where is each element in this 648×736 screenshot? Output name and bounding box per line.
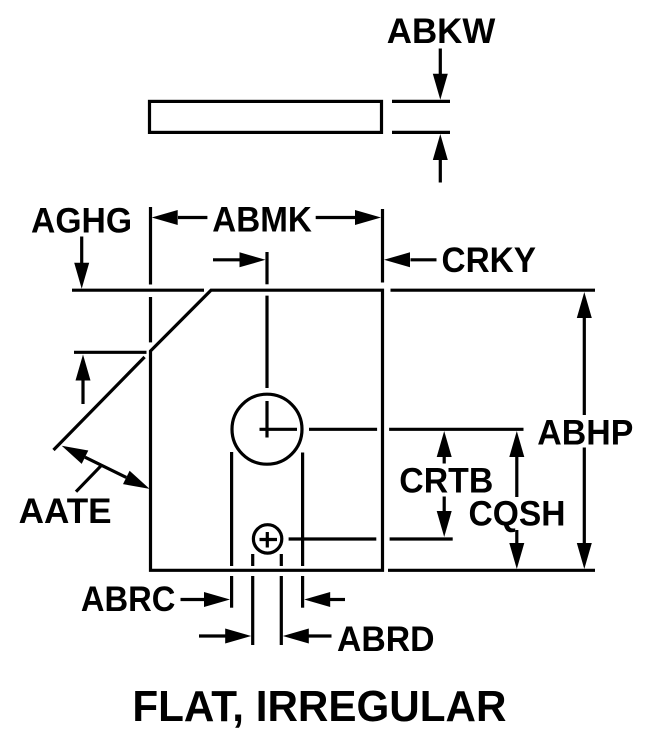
CRTB dimension line upper segment — [443, 456, 446, 464]
CRTB up arrowhead — [437, 431, 452, 457]
svg-text:ABKW: ABKW — [387, 12, 496, 51]
ABMK left arrowhead — [152, 210, 178, 225]
right extension line above plate — [381, 209, 384, 283]
ABHP down arrowhead — [577, 543, 592, 569]
chamfer height up arrowhead — [76, 355, 91, 381]
svg-text:ABRD: ABRD — [337, 620, 435, 659]
hole centerline above top edge — [265, 252, 268, 284]
CQSH up arrowhead — [509, 431, 524, 457]
ABKW up arrowhead — [433, 134, 448, 160]
small hole level extension line inside plate — [289, 537, 377, 540]
small hole cross horizontal — [260, 538, 278, 541]
hole centerline inside circle — [265, 401, 268, 438]
small hole right diameter extension line upper — [280, 554, 283, 566]
top edge right extension line — [391, 289, 596, 292]
ABRC right-pointing arrowhead — [204, 592, 230, 607]
big hole horizontal centerline inner segment — [260, 428, 298, 431]
big hole circle — [232, 394, 302, 464]
svg-text:CRKY: CRKY — [442, 241, 537, 280]
plate outline — [151, 290, 383, 570]
CRKY partner arrow shaft — [213, 258, 240, 261]
small hole left diameter extension line lower — [251, 576, 254, 645]
ABMK dimension line left segment — [178, 216, 207, 219]
ABMK right arrowhead — [355, 210, 381, 225]
small hole left diameter extension line upper — [251, 554, 254, 566]
svg-text:ABMK: ABMK — [212, 200, 311, 239]
big hole right diameter extension line upper — [301, 453, 304, 567]
AATE lower-right arrowhead — [123, 471, 150, 489]
AATE arrow shaft — [85, 457, 126, 477]
side view plate rectangle — [150, 101, 382, 132]
top edge left extension line — [72, 289, 204, 292]
CQSH down arrowhead — [509, 543, 524, 569]
big hole left diameter extension line lower — [230, 576, 233, 608]
ABRD dimension line left segment — [199, 634, 226, 637]
extension line top right of side view — [392, 100, 450, 103]
ABKW down arrowhead — [433, 74, 448, 100]
small hole circle — [253, 525, 281, 553]
ABRC dimension line right segment — [329, 598, 345, 601]
CQSH dimension line upper segment — [515, 456, 518, 497]
ABRC left-pointing arrowhead — [304, 592, 330, 607]
big hole horizontal centerline right segment inside plate — [309, 428, 377, 431]
ABMK dimension line right segment — [316, 216, 356, 219]
svg-text:FLAT, IRREGULAR: FLAT, IRREGULAR — [132, 682, 506, 731]
chamfer extension line — [54, 357, 145, 450]
hole centerline below top edge — [265, 296, 268, 388]
CRKY partner right arrowhead — [240, 252, 266, 267]
AGHG arrow shaft — [80, 237, 83, 264]
big hole left diameter extension line upper — [230, 452, 233, 566]
CQSH dimension line lower segment — [515, 530, 518, 543]
svg-text:ABRC: ABRC — [81, 580, 175, 619]
chamfer level extension line — [74, 351, 147, 354]
CRKY arrow shaft — [411, 258, 437, 261]
small hole cross vertical — [266, 532, 269, 548]
ABKW upper arrow shaft — [439, 49, 442, 75]
big hole right diameter extension line lower — [301, 576, 304, 608]
bottom edge right extension line — [388, 569, 595, 572]
svg-text:AGHG: AGHG — [31, 201, 132, 240]
ABRC dimension line left segment — [181, 598, 206, 601]
left extension line below top edge — [149, 297, 152, 342]
ABRD dimension line right segment — [308, 634, 332, 637]
ABHP dimension line lower segment — [583, 448, 586, 544]
ABHP up arrowhead — [577, 292, 592, 318]
CRTB down arrowhead — [437, 511, 452, 537]
small hole right diameter extension line lower — [280, 576, 283, 645]
AGHG down arrowhead — [74, 263, 89, 289]
ABHP dimension line upper segment — [583, 317, 586, 415]
CRTB dimension line lower segment — [443, 497, 446, 512]
AATE leader line — [76, 466, 101, 492]
svg-text:CQSH: CQSH — [469, 495, 566, 534]
ABKW lower arrow shaft — [439, 160, 442, 183]
svg-text:AATE: AATE — [19, 492, 112, 531]
ABRD left-pointing arrowhead — [283, 629, 309, 644]
ABRD right-pointing arrowhead — [225, 629, 251, 644]
big hole horizontal centerline right segment outside plate — [389, 428, 523, 431]
left extension line above plate — [149, 207, 152, 285]
svg-text:ABHP: ABHP — [537, 414, 633, 453]
small hole level extension line outside plate — [390, 537, 453, 540]
CRKY left arrowhead — [384, 252, 410, 267]
chamfer height up arrow shaft — [81, 380, 84, 404]
extension line bottom right of side view — [392, 131, 450, 134]
AATE upper-left arrowhead — [62, 446, 89, 464]
